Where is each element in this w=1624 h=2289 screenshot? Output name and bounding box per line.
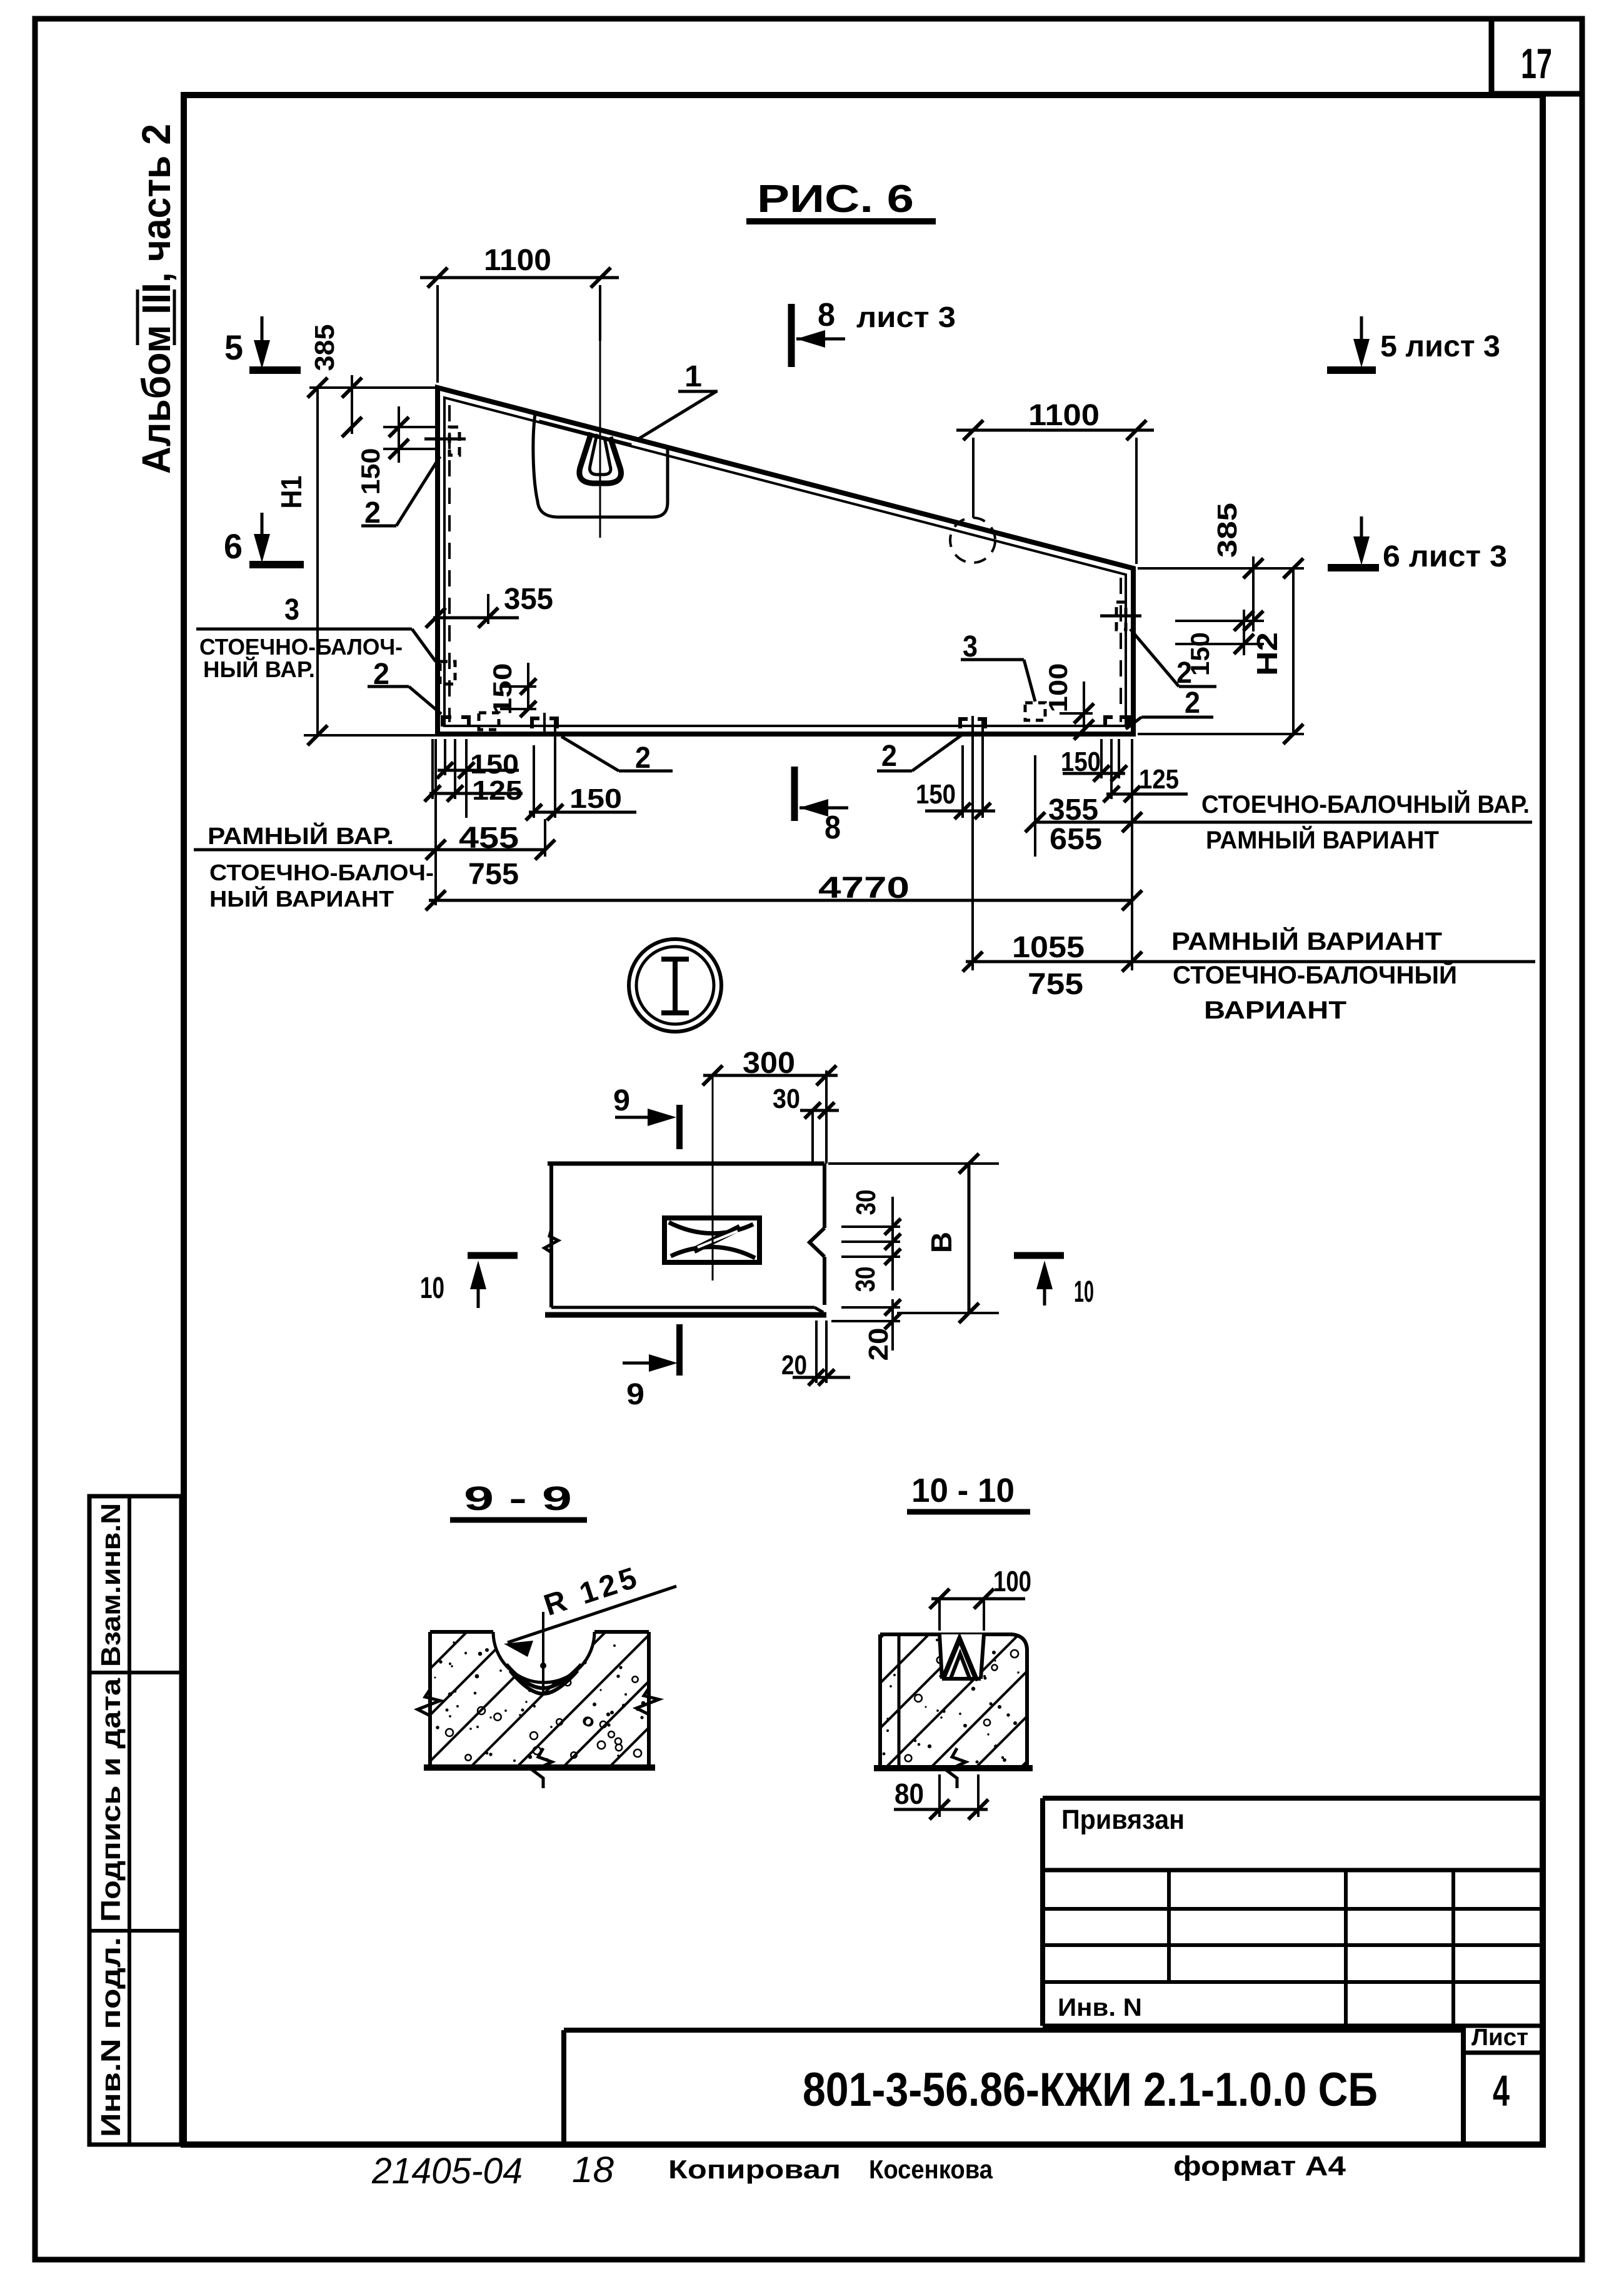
svg-text:4770: 4770	[818, 872, 910, 905]
svg-text:18: 18	[572, 2150, 614, 2190]
designation box	[564, 2026, 1463, 2145]
dim 4770	[426, 872, 1142, 910]
svg-text:лист 3: лист 3	[856, 301, 956, 333]
section 9-9 centerline	[542, 1612, 544, 1696]
section 9-9 break marks	[418, 1689, 440, 1716]
label рамный вар. (left) and dim 455	[194, 819, 555, 860]
plan slot with anchor	[664, 1218, 759, 1262]
section mark 8 (top)	[791, 297, 956, 367]
dimension 1100 (right top)	[956, 399, 1154, 564]
dim 150 right	[1175, 610, 1264, 676]
label R 125 with leader	[504, 1561, 676, 1657]
svg-text:3: 3	[284, 593, 299, 626]
left strip table	[89, 1496, 181, 2145]
svg-text:30: 30	[851, 1190, 881, 1215]
svg-text:100: 100	[993, 1565, 1031, 1597]
dim B right	[828, 1154, 999, 1323]
leader 3 right with dashed detail	[961, 630, 1045, 720]
svg-text:150: 150	[1185, 632, 1215, 676]
leader 1	[636, 360, 718, 440]
page number box 17	[1491, 19, 1582, 94]
panel outline (inner)	[444, 398, 1126, 726]
svg-text:2: 2	[635, 742, 651, 775]
svg-text:Инв.N подл.: Инв.N подл.	[96, 1937, 126, 2137]
dim H2	[1138, 558, 1304, 744]
svg-text:9: 9	[626, 1378, 644, 1411]
svg-text:1100: 1100	[484, 244, 551, 277]
embedded plate bottom-right corner	[1105, 717, 1129, 727]
svg-text:2: 2	[881, 740, 897, 773]
label стоечно-балочный вариант (left) and dim 755	[209, 858, 519, 912]
svg-text:125: 125	[472, 775, 523, 806]
svg-text:10: 10	[1074, 1275, 1094, 1309]
svg-text:9: 9	[613, 1084, 630, 1117]
dim 385 left	[309, 324, 362, 438]
dim 150 left lower (dashed detail)	[488, 663, 536, 717]
dim 150 bottom mid-right	[916, 719, 995, 819]
svg-text:1: 1	[684, 360, 702, 393]
embedded plate bottom mid-left	[532, 713, 557, 737]
dashed joint line left	[448, 405, 451, 722]
svg-text:5 лист 3: 5 лист 3	[1380, 330, 1500, 363]
svg-text:150: 150	[569, 783, 622, 814]
lifting loop 1	[579, 433, 621, 483]
svg-text:20: 20	[863, 1328, 894, 1361]
dims 30 30 right of notch	[841, 1190, 901, 1292]
leader 2 right-top	[1130, 629, 1216, 690]
svg-text:РИС. 6: РИС. 6	[757, 178, 914, 221]
embedded plate 2 top-left	[424, 427, 466, 455]
svg-text:125: 125	[1139, 764, 1179, 795]
svg-text:9 - 9: 9 - 9	[464, 1480, 572, 1517]
leader 2 bottom mid-left	[561, 737, 673, 775]
svg-text:4: 4	[1493, 2066, 1510, 2115]
section 10-10 anchor loop	[943, 1639, 976, 1678]
dim 100 right-center	[1043, 663, 1094, 740]
extension mid-right (1055 dim)	[971, 716, 974, 970]
section mark 9 (top)	[613, 1084, 679, 1149]
svg-text:30: 30	[850, 1267, 881, 1292]
section mark 5 (left)	[224, 316, 301, 370]
inner drawing frame	[184, 95, 1543, 2145]
dim 30 top	[773, 1084, 839, 1164]
svg-text:Подпись и дата: Подпись и дата	[96, 1678, 126, 1922]
svg-text:10 - 10: 10 - 10	[911, 1472, 1015, 1509]
svg-text:150: 150	[488, 663, 517, 715]
svg-text:Взам.инв.N: Взам.инв.N	[96, 1503, 126, 1667]
svg-text:5: 5	[224, 328, 243, 367]
svg-text:Альбом III, часть 2: Альбом III, часть 2	[134, 124, 179, 474]
section 10-10 slot	[940, 1634, 984, 1679]
extension lines left 150	[383, 426, 438, 428]
plan view plate outline	[545, 1164, 826, 1315]
svg-text:формат А4: формат А4	[1173, 2151, 1346, 2181]
dim 300	[703, 1047, 838, 1164]
svg-text:СТОЕЧНО-БАЛОЧНЫЙ: СТОЕЧНО-БАЛОЧНЫЙ	[1173, 960, 1457, 989]
svg-text:СТОЕЧНО-БАЛОЧНЫЙ ВАР.: СТОЕЧНО-БАЛОЧНЫЙ ВАР.	[1201, 790, 1530, 818]
svg-text:755: 755	[468, 858, 519, 891]
leader 2 lower-left	[368, 658, 441, 714]
section 9-9 title	[450, 1480, 587, 1520]
dim 150 bottom mid-left	[526, 719, 636, 820]
labels рамный вариант / стоечно-балочный вариант (lower right)	[1171, 927, 1457, 1024]
bottom-left small dims 150 and 125	[424, 739, 523, 818]
svg-text:Лист: Лист	[1471, 2025, 1528, 2051]
svg-text:30: 30	[773, 1084, 800, 1114]
section mark 10 (left)	[420, 1255, 518, 1308]
embedded plate 2 right edge	[1100, 602, 1141, 630]
section 10-10 break mark	[947, 1748, 966, 1788]
svg-text:Копировал: Копировал	[668, 2155, 841, 2184]
embedded plate bottom-left corner	[443, 717, 469, 727]
svg-text:150: 150	[916, 779, 956, 810]
dashed circle on slope	[950, 518, 995, 563]
embedded plate bottom mid-right	[960, 719, 985, 728]
svg-text:РАМНЫЙ ВАРИАНТ: РАМНЫЙ ВАРИАНТ	[1206, 825, 1439, 854]
embedded detail left (dashed) at bottom	[479, 713, 499, 730]
panel left edge extension down	[434, 739, 437, 905]
svg-text:100: 100	[1043, 663, 1073, 713]
dim 1055 / 755 (right)	[963, 931, 1535, 1001]
svg-text:21405-04: 21405-04	[371, 2151, 523, 2191]
svg-text:20: 20	[781, 1350, 807, 1381]
album label: Альбом III, часть 2	[134, 124, 179, 474]
section symbol I in circle	[629, 939, 721, 1032]
svg-text:755: 755	[1028, 968, 1083, 1001]
dim 20 right	[831, 1299, 901, 1361]
dim 150 left top	[356, 406, 409, 495]
svg-text:H1: H1	[275, 476, 308, 509]
panel outline (outer)	[438, 388, 1133, 734]
svg-text:СТОЕЧНО-БАЛОЧ-: СТОЕЧНО-БАЛОЧ-	[209, 860, 434, 885]
label стоечно-балочный вар. (right)	[1136, 790, 1532, 854]
svg-text:6 лист 3: 6 лист 3	[1383, 540, 1507, 573]
footer Копировал Косенкова	[668, 2155, 993, 2184]
dim H1	[275, 378, 436, 745]
Лист box	[1463, 2025, 1543, 2115]
section 10-10 title	[907, 1472, 1030, 1512]
svg-text:НЫЙ ВАР.: НЫЙ ВАР.	[203, 656, 315, 682]
leader 2 top-left	[361, 456, 440, 530]
svg-text:Привязан: Привязан	[1061, 1804, 1185, 1835]
dimension 1100 (left top)	[420, 244, 619, 383]
embedded detail 3 left (dashed)	[440, 662, 455, 684]
svg-text:8: 8	[825, 810, 841, 846]
dims 355 655 right	[1025, 755, 1142, 857]
section 10-10 block outline	[874, 1634, 1033, 1768]
svg-text:10: 10	[420, 1272, 444, 1305]
lifting loop recess blob	[533, 414, 668, 517]
svg-text:B: B	[925, 1232, 958, 1253]
svg-text:РАМНЫЙ ВАР.: РАМНЫЙ ВАР.	[208, 822, 394, 850]
right edge extension down	[1131, 739, 1133, 970]
svg-text:8: 8	[818, 297, 835, 333]
svg-text:1100: 1100	[1028, 399, 1100, 432]
svg-text:РАМНЫЙ ВАРИАНТ: РАМНЫЙ ВАРИАНТ	[1171, 927, 1442, 955]
svg-text:655: 655	[1050, 823, 1102, 856]
drawing title РИС. 6	[746, 178, 936, 221]
svg-text:2: 2	[1185, 687, 1200, 720]
svg-text:6: 6	[224, 526, 243, 566]
svg-text:801-3-56.86-КЖИ 2.1-1.0.0 СБ: 801-3-56.86-КЖИ 2.1-1.0.0 СБ	[803, 2063, 1378, 2116]
svg-text:355: 355	[504, 583, 553, 616]
leader 2 right-bottom	[1126, 687, 1213, 729]
svg-text:150: 150	[356, 448, 385, 495]
label стоечно-балочный вар. (left)	[199, 634, 403, 682]
svg-text:150: 150	[1061, 747, 1101, 777]
svg-text:Инв. N: Инв. N	[1058, 1994, 1142, 2021]
section mark 6 лист 3 (right)	[1328, 516, 1507, 573]
section mark 10 (right)	[1014, 1255, 1094, 1309]
dim 355 left	[426, 583, 553, 628]
svg-text:17: 17	[1521, 40, 1552, 88]
svg-text:80: 80	[895, 1778, 924, 1810]
svg-text:455: 455	[459, 822, 519, 855]
section mark 6 (left)	[224, 513, 304, 566]
dashed joint line right	[1120, 578, 1122, 722]
dim 100 (section 10-10)	[930, 1565, 1031, 1631]
dim 385 right	[1175, 503, 1264, 631]
svg-text:НЫЙ ВАРИАНТ: НЫЙ ВАРИАНТ	[209, 885, 394, 912]
svg-text:Косенкова: Косенкова	[869, 2155, 993, 2184]
section mark 5 лист 3 (right)	[1327, 316, 1500, 370]
svg-text:СТОЕЧНО-БАЛОЧ-: СТОЕЧНО-БАЛОЧ-	[199, 634, 403, 660]
svg-text:300: 300	[743, 1047, 795, 1080]
plan left edge break	[544, 1229, 558, 1252]
dim 80 (section 10-10)	[894, 1774, 988, 1819]
svg-text:ВАРИАНТ: ВАРИАНТ	[1204, 997, 1346, 1024]
bottom-right small dims 150 and 125	[1061, 739, 1188, 802]
loop centerline	[599, 338, 601, 538]
svg-text:1055: 1055	[1012, 931, 1085, 964]
section mark 9 (bottom)	[623, 1324, 679, 1411]
svg-text:H2: H2	[1251, 632, 1283, 676]
left extension at top corner level	[309, 386, 436, 389]
leader 3 left with label	[196, 593, 436, 662]
section 9-9 block outline	[424, 1632, 655, 1768]
svg-text:385: 385	[1212, 503, 1243, 558]
section 9-9 rebar loop	[506, 1663, 581, 1694]
svg-text:385: 385	[309, 324, 340, 371]
leader 2 bottom mid-right	[877, 735, 961, 773]
svg-text:355: 355	[1048, 793, 1098, 827]
right extension at top corner level	[1138, 567, 1304, 570]
section mark 8 (bottom)	[794, 767, 848, 846]
plan slot centerline	[712, 1074, 714, 1280]
dim 20 bottom	[781, 1321, 850, 1386]
title block box	[1043, 1798, 1543, 2145]
